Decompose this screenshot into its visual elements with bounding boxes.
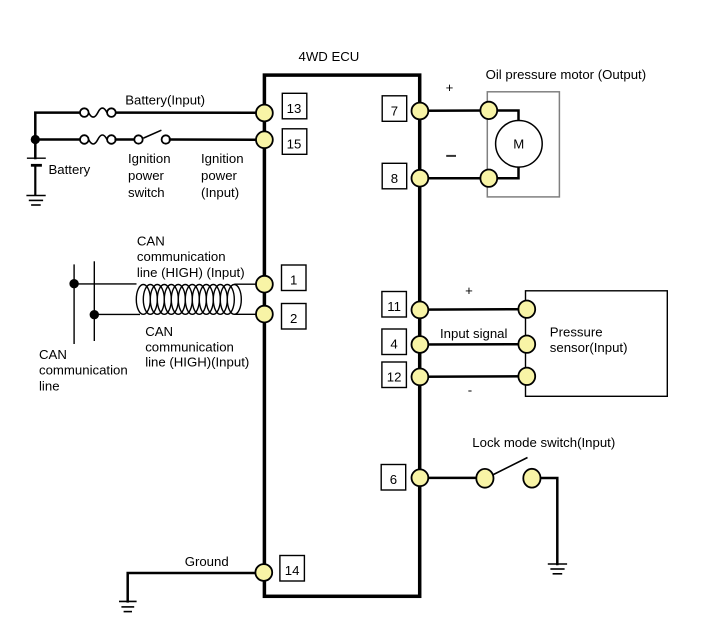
- wire CAN low to coil: [94, 313, 140, 315]
- motor M1 circle: [496, 121, 543, 168]
- svg-text:CAN: CAN: [39, 347, 67, 362]
- label minus motor: [446, 155, 456, 157]
- wire pin 4 to sensor: [420, 343, 528, 346]
- pin 12: [382, 362, 428, 388]
- svg-text:1: 1: [290, 273, 297, 288]
- ground bottom left: [119, 601, 137, 611]
- svg-text:12: 12: [387, 370, 402, 385]
- svg-text:6: 6: [390, 472, 397, 487]
- pin 13: [256, 93, 307, 121]
- svg-text:Oil pressure motor (Output): Oil pressure motor (Output): [486, 67, 646, 82]
- pin 6: [381, 465, 428, 491]
- wire battery top to pin 13: [35, 113, 80, 158]
- junction dot CAN B: [90, 310, 99, 319]
- svg-text:M: M: [513, 136, 524, 151]
- wire motor internal bottom: [489, 168, 519, 179]
- svg-text:(Input): (Input): [201, 185, 239, 200]
- svg-text:power: power: [201, 168, 238, 183]
- svg-text:communication: communication: [39, 363, 128, 378]
- svg-text:line (HIGH) (Input): line (HIGH) (Input): [137, 265, 245, 280]
- svg-text:15: 15: [287, 136, 302, 151]
- wire pin 12 to sensor: [420, 375, 528, 378]
- svg-text:13: 13: [287, 101, 302, 116]
- pin 11: [382, 292, 428, 319]
- motor connector bottom: [480, 170, 497, 187]
- svg-text:-: -: [468, 383, 472, 398]
- wire CAN high to coil: [74, 283, 136, 285]
- wire pin 11 to sensor: [420, 308, 528, 311]
- pin 15: [256, 129, 307, 155]
- ECU box U1: [264, 75, 419, 596]
- battery B1: [27, 158, 46, 195]
- pin 1: [256, 265, 306, 293]
- svg-text:4: 4: [390, 337, 397, 352]
- sensor connector mid: [518, 336, 535, 353]
- svg-text:8: 8: [391, 171, 398, 186]
- svg-text:+: +: [446, 80, 454, 95]
- svg-text:7: 7: [391, 103, 398, 118]
- svg-text:communication: communication: [137, 249, 226, 264]
- svg-text:switch: switch: [128, 185, 165, 200]
- sensor connector top: [518, 301, 535, 318]
- svg-text:14: 14: [285, 563, 300, 578]
- svg-text:CAN: CAN: [137, 234, 165, 249]
- svg-text:11: 11: [387, 299, 401, 314]
- wire motor internal top: [489, 111, 519, 121]
- svg-text:Battery: Battery: [49, 162, 91, 177]
- twisted pair coil L1: [136, 285, 241, 315]
- svg-text:Pressure: Pressure: [550, 325, 603, 340]
- wire fuse2 to switch: [116, 138, 135, 141]
- pin 7: [382, 96, 428, 122]
- junction dot CAN A: [69, 279, 78, 288]
- svg-text:CAN: CAN: [145, 324, 173, 339]
- motor box: [487, 92, 559, 197]
- svg-text:Input signal: Input signal: [440, 326, 508, 341]
- motor connector top: [480, 102, 497, 119]
- svg-text:Battery(Input): Battery(Input): [125, 92, 205, 107]
- sensor connector bottom: [518, 368, 535, 385]
- ground lock switch: [548, 564, 567, 574]
- pin 4: [382, 329, 428, 355]
- wire pin 8 to motor: [420, 177, 489, 180]
- pin 8: [382, 163, 428, 189]
- wire junction to fuse2: [35, 138, 80, 141]
- wire pin 7 to motor: [420, 109, 489, 112]
- wire fuse1 to pin13: [116, 111, 257, 114]
- svg-text:Lock mode switch(Input): Lock mode switch(Input): [472, 435, 615, 450]
- svg-text:line (HIGH)(Input): line (HIGH)(Input): [145, 355, 249, 370]
- CAN bus vertical line B: [93, 261, 95, 341]
- junction dot battery: [31, 135, 40, 144]
- pressure sensor box: [526, 291, 668, 397]
- lock switch blade: [494, 458, 528, 475]
- fuse F2: [80, 135, 116, 144]
- wire switch to pin 15: [170, 138, 257, 141]
- ignition switch S1: [134, 130, 170, 144]
- wire pin 6 to lock switch: [420, 477, 477, 480]
- svg-text:Ground: Ground: [185, 554, 229, 569]
- svg-text:line: line: [39, 379, 60, 394]
- lock switch contact left: [476, 469, 493, 488]
- ground battery: [26, 196, 45, 206]
- svg-text:Ignition: Ignition: [128, 151, 171, 166]
- svg-text:4WD ECU: 4WD ECU: [299, 49, 360, 64]
- lock switch contact right: [523, 469, 540, 488]
- svg-text:+: +: [465, 283, 473, 298]
- fuse F1: [80, 108, 116, 117]
- wire pin 14 to ground: [128, 573, 257, 601]
- svg-text:power: power: [128, 168, 165, 183]
- svg-text:Ignition: Ignition: [201, 151, 244, 166]
- pin 2: [256, 304, 306, 330]
- svg-text:2: 2: [290, 311, 297, 326]
- wire lock switch to ground: [540, 478, 557, 564]
- wire coil to pin 1: [234, 283, 258, 285]
- wire coil to pin 2: [234, 313, 258, 315]
- svg-text:communication: communication: [145, 339, 234, 354]
- CAN bus vertical line A: [73, 264, 75, 344]
- pin 14: [255, 556, 304, 582]
- svg-text:sensor(Input): sensor(Input): [550, 340, 628, 355]
